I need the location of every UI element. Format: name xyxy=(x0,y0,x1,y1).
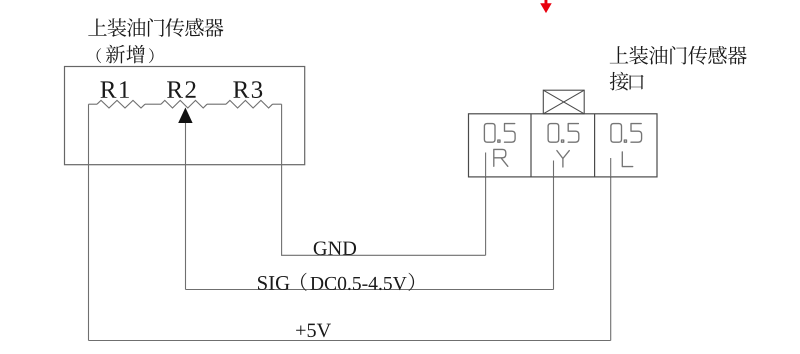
connector cell divider 1 xyxy=(530,114,532,177)
wire: right vertical to GND xyxy=(282,104,486,255)
wire: SIG riser to pin Y xyxy=(553,177,555,290)
label: right sensor title 上装油门传感器 xyxy=(610,46,747,65)
pin label L xyxy=(622,152,632,167)
wire: wiper stem to SIG xyxy=(185,123,187,290)
label GND xyxy=(314,241,356,255)
label: （新增） xyxy=(97,45,154,64)
connector terminal block outline xyxy=(469,114,658,177)
wire: left lead xyxy=(89,103,98,105)
pin stub L xyxy=(610,158,612,177)
pin stub R xyxy=(485,153,487,177)
resistor R2 (potentiometer) xyxy=(161,100,207,108)
wire: R2-R3 xyxy=(207,103,226,105)
resistor R1 xyxy=(97,100,145,108)
wire: GND riser to pin R xyxy=(485,177,487,255)
label +5V xyxy=(296,324,331,338)
wire: SIG horizontal xyxy=(186,289,554,291)
pin stub Y xyxy=(553,161,555,177)
wire: +5V horizontal xyxy=(89,340,611,342)
label R2 xyxy=(167,81,195,98)
red arrow marker xyxy=(540,0,552,13)
label SIG (DC0.5-4.5V) xyxy=(258,276,289,290)
sensor enclosure box xyxy=(65,67,305,165)
label: 接口 xyxy=(610,72,644,91)
label SIG value DC0.5-4.5V xyxy=(310,277,406,290)
label SIG opening paren xyxy=(301,273,307,291)
pin value 0.5 (cell R) xyxy=(484,124,515,143)
label: left sensor title 上装油门传感器 xyxy=(88,18,223,37)
pin value 0.5 (cell L) xyxy=(611,124,642,143)
potentiometer wiper arrow xyxy=(178,108,192,124)
connector cell divider 2 xyxy=(594,114,596,177)
pin value 0.5 (cell Y) xyxy=(548,124,579,143)
resistor R3 xyxy=(226,100,273,108)
crossed box (connector key) xyxy=(543,90,584,114)
label SIG closing paren xyxy=(409,273,415,291)
wire: left vertical to +5V xyxy=(88,104,90,340)
pin label R xyxy=(494,149,508,166)
wire: R1-R2 xyxy=(145,103,161,105)
label R1 xyxy=(101,81,129,98)
pin label Y xyxy=(557,151,569,167)
wire: right lead xyxy=(273,103,282,105)
label R3 xyxy=(233,81,262,98)
wire: +5V riser to pin L xyxy=(610,177,612,341)
